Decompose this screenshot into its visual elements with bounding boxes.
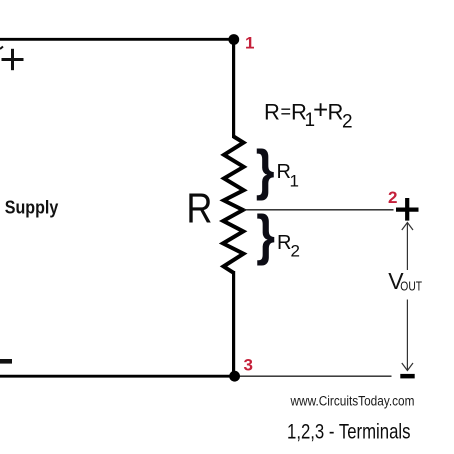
svg-text:1: 1 — [245, 34, 254, 53]
equation R = R1 + R2 — [264, 95, 353, 133]
svg-text:OUT: OUT — [400, 279, 422, 294]
resistor R zigzag body — [223, 137, 244, 273]
label VOUT — [388, 268, 422, 294]
output minus terminal bar — [400, 374, 414, 379]
supply - terminal symbol — [0, 359, 12, 364]
wire: top supply wire from + terminal to node 1 — [0, 38, 235, 41]
wire: bottom supply wire from - terminal to node 3 — [0, 375, 235, 378]
svg-text:2: 2 — [291, 242, 300, 261]
wire: node 1 down to resistor top — [232, 39, 235, 138]
svg-text:1: 1 — [290, 172, 299, 191]
svg-text:3: 3 — [244, 356, 253, 375]
Vout dimension line (upper segment with up arrowhead) — [402, 223, 413, 271]
svg-text:2: 2 — [342, 112, 353, 133]
svg-text:2: 2 — [388, 188, 397, 207]
svg-text:R: R — [186, 186, 212, 232]
node 1 junction dot — [228, 34, 239, 45]
svg-text:+: + — [313, 95, 328, 125]
svg-text:www.CircuitsToday.com: www.CircuitsToday.com — [290, 393, 415, 408]
svg-text:R: R — [328, 100, 344, 125]
svg-text:1,2,3 - Terminals: 1,2,3 - Terminals — [287, 419, 411, 443]
terminal 2 + symbol — [396, 198, 419, 221]
svg-text:R: R — [264, 100, 280, 125]
node 3 junction dot — [229, 371, 240, 382]
svg-text:}: } — [256, 205, 275, 267]
label R2 — [277, 232, 300, 261]
Vout dimension line (lower segment with down arrowhead) — [402, 300, 413, 371]
svg-text:Supply: Supply — [5, 197, 59, 217]
svg-text:}: } — [256, 140, 275, 202]
wire: wiper tap from resistor middle to terminal 2 — [244, 209, 394, 211]
label R1 — [277, 161, 299, 191]
wire: resistor bottom to node 3 — [232, 271, 235, 377]
svg-text:R: R — [277, 232, 291, 254]
edge fragment near + — [0, 47, 3, 50]
supply + terminal symbol — [2, 49, 24, 70]
wire: node 3 to output minus terminal — [239, 375, 392, 377]
svg-text:=: = — [281, 102, 292, 122]
